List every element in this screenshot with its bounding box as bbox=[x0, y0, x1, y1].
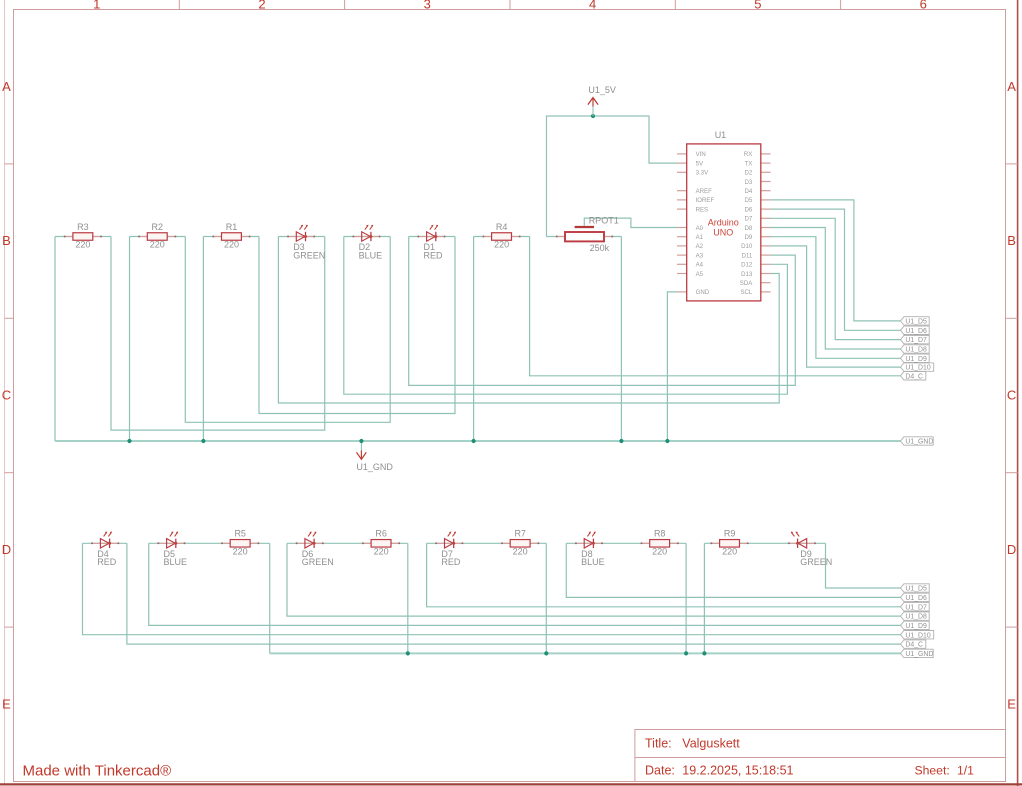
svg-text:R2: R2 bbox=[152, 222, 164, 232]
svg-text:U1_D5: U1_D5 bbox=[905, 319, 927, 326]
svg-text:5: 5 bbox=[754, 0, 761, 12]
svg-text:BLUE: BLUE bbox=[581, 557, 605, 567]
svg-text:D4: D4 bbox=[745, 188, 753, 195]
svg-text:TX: TX bbox=[745, 160, 753, 167]
svg-text:5V: 5V bbox=[696, 160, 704, 167]
svg-text:A: A bbox=[1007, 79, 1016, 94]
svg-text:A3: A3 bbox=[696, 252, 704, 259]
svg-text:GREEN: GREEN bbox=[302, 557, 334, 567]
svg-text:D: D bbox=[1007, 542, 1016, 557]
svg-text:D8: D8 bbox=[745, 225, 753, 232]
svg-text:U1_GND: U1_GND bbox=[356, 462, 393, 472]
svg-text:19.2.2025, 15:18:51: 19.2.2025, 15:18:51 bbox=[682, 763, 793, 777]
svg-text:D3: D3 bbox=[745, 179, 753, 186]
svg-text:RPOT1: RPOT1 bbox=[589, 215, 619, 225]
svg-text:Valguskett: Valguskett bbox=[682, 737, 740, 751]
svg-text:D6: D6 bbox=[745, 206, 753, 213]
svg-text:U1_D7: U1_D7 bbox=[905, 337, 927, 344]
svg-text:D13: D13 bbox=[741, 271, 753, 278]
svg-text:BLUE: BLUE bbox=[164, 557, 188, 567]
svg-text:VIN: VIN bbox=[696, 151, 706, 158]
svg-text:A4: A4 bbox=[696, 262, 704, 269]
svg-text:SCL: SCL bbox=[740, 289, 752, 296]
svg-text:B: B bbox=[2, 233, 11, 248]
svg-text:U1_D9: U1_D9 bbox=[905, 356, 927, 363]
svg-text:220: 220 bbox=[150, 240, 165, 250]
svg-text:D9: D9 bbox=[745, 234, 753, 241]
svg-text:R3: R3 bbox=[77, 222, 89, 232]
svg-text:R8: R8 bbox=[654, 529, 666, 539]
svg-text:U1_5V: U1_5V bbox=[588, 85, 616, 95]
svg-text:E: E bbox=[2, 696, 11, 711]
svg-text:R6: R6 bbox=[375, 529, 387, 539]
svg-text:R7: R7 bbox=[514, 529, 526, 539]
svg-text:220: 220 bbox=[494, 240, 509, 250]
svg-text:U1_D6: U1_D6 bbox=[905, 595, 927, 602]
svg-text:D2: D2 bbox=[745, 170, 753, 177]
svg-text:C: C bbox=[1007, 388, 1016, 403]
svg-text:2: 2 bbox=[258, 0, 265, 12]
svg-text:U1_D10: U1_D10 bbox=[905, 365, 930, 372]
svg-text:U1_D8: U1_D8 bbox=[905, 347, 927, 354]
svg-text:RED: RED bbox=[97, 557, 117, 567]
svg-text:D10: D10 bbox=[741, 243, 753, 250]
svg-text:R4: R4 bbox=[496, 222, 508, 232]
svg-text:6: 6 bbox=[920, 0, 927, 12]
svg-text:UNO: UNO bbox=[713, 227, 733, 237]
svg-text:1/1: 1/1 bbox=[957, 763, 974, 777]
svg-text:GND: GND bbox=[696, 289, 710, 296]
svg-text:A5: A5 bbox=[696, 271, 704, 278]
svg-text:220: 220 bbox=[75, 240, 90, 250]
svg-text:U1_D10: U1_D10 bbox=[905, 632, 930, 639]
svg-text:D5: D5 bbox=[745, 197, 753, 204]
svg-text:U1_GND: U1_GND bbox=[905, 651, 933, 658]
svg-text:A0: A0 bbox=[696, 225, 704, 232]
svg-text:B: B bbox=[1007, 233, 1016, 248]
svg-text:220: 220 bbox=[233, 546, 248, 556]
svg-text:A1: A1 bbox=[696, 234, 704, 241]
svg-text:220: 220 bbox=[652, 546, 667, 556]
svg-text:220: 220 bbox=[722, 546, 737, 556]
svg-text:BLUE: BLUE bbox=[359, 250, 383, 260]
svg-text:Title:: Title: bbox=[645, 737, 672, 751]
svg-text:D7: D7 bbox=[745, 216, 753, 223]
svg-text:U1_GND: U1_GND bbox=[905, 439, 933, 446]
svg-text:U1: U1 bbox=[715, 130, 727, 140]
svg-text:U1_D7: U1_D7 bbox=[905, 604, 927, 611]
svg-text:D4_C: D4_C bbox=[905, 373, 923, 380]
svg-text:IOREF: IOREF bbox=[696, 197, 715, 204]
svg-text:220: 220 bbox=[513, 546, 528, 556]
svg-text:Arduino: Arduino bbox=[708, 217, 739, 227]
svg-text:E: E bbox=[1007, 696, 1016, 711]
svg-text:C: C bbox=[2, 388, 11, 403]
svg-text:U1_D6: U1_D6 bbox=[905, 328, 927, 335]
svg-text:GREEN: GREEN bbox=[293, 250, 325, 260]
svg-text:3.3V: 3.3V bbox=[696, 170, 709, 177]
svg-text:U1_D8: U1_D8 bbox=[905, 614, 927, 621]
svg-text:A2: A2 bbox=[696, 243, 704, 250]
svg-text:Sheet:: Sheet: bbox=[915, 763, 950, 777]
svg-text:R5: R5 bbox=[234, 529, 246, 539]
svg-text:RX: RX bbox=[744, 151, 752, 158]
svg-text:R9: R9 bbox=[724, 529, 736, 539]
svg-text:220: 220 bbox=[374, 546, 389, 556]
svg-text:250k: 250k bbox=[590, 243, 610, 253]
svg-text:1: 1 bbox=[93, 0, 100, 12]
svg-text:A: A bbox=[2, 79, 11, 94]
svg-text:U1_D9: U1_D9 bbox=[905, 623, 927, 630]
svg-text:220: 220 bbox=[224, 240, 239, 250]
svg-text:RED: RED bbox=[441, 557, 461, 567]
svg-text:3: 3 bbox=[424, 0, 431, 12]
svg-text:RES: RES bbox=[696, 206, 709, 213]
svg-text:D4_C: D4_C bbox=[905, 642, 923, 649]
svg-text:AREF: AREF bbox=[696, 188, 713, 195]
svg-text:4: 4 bbox=[589, 0, 596, 12]
svg-text:SDA: SDA bbox=[740, 280, 753, 287]
svg-text:R1: R1 bbox=[226, 222, 238, 232]
svg-text:Made with Tinkercad®: Made with Tinkercad® bbox=[23, 763, 172, 780]
svg-text:RED: RED bbox=[424, 250, 444, 260]
svg-text:D: D bbox=[2, 542, 11, 557]
svg-text:D11: D11 bbox=[742, 252, 753, 259]
svg-text:U1_D5: U1_D5 bbox=[905, 586, 927, 593]
svg-text:GREEN: GREEN bbox=[800, 557, 832, 567]
svg-text:D12: D12 bbox=[741, 262, 753, 269]
svg-text:Date:: Date: bbox=[645, 763, 675, 777]
